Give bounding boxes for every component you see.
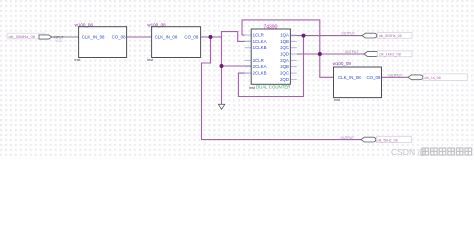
svg-text:1QB: 1QB <box>280 39 289 44</box>
svg-text:1CLKB: 1CLKB <box>253 45 267 50</box>
svg-text:2QC: 2QC <box>280 71 289 76</box>
svg-text:CO_08: CO_08 <box>112 35 126 40</box>
svg-text:inst: inst <box>75 58 82 62</box>
svg-text:w100_08: w100_08 <box>333 61 352 66</box>
svg-text:CLK_IN_08: CLK_IN_08 <box>155 35 178 40</box>
svg-text:CO_08: CO_08 <box>367 75 381 80</box>
svg-text:clk_5kHz_08: clk_5kHz_08 <box>377 138 398 142</box>
svg-text:1QC: 1QC <box>280 45 289 50</box>
svg-text:w100_08: w100_08 <box>75 22 94 27</box>
svg-text:OUTPUT: OUTPUT <box>341 31 355 35</box>
svg-text:2QD: 2QD <box>280 77 289 82</box>
svg-text:2CLKA: 2CLKA <box>253 64 267 69</box>
svg-text:2QA: 2QA <box>280 58 289 63</box>
svg-text:1QA: 1QA <box>280 33 289 38</box>
svg-text:inst: inst <box>147 58 154 62</box>
svg-text:clk_500Hz_08: clk_500Hz_08 <box>379 34 402 38</box>
svg-text:1QD: 1QD <box>280 52 289 57</box>
svg-text:CSDN @: CSDN @ <box>391 147 426 157</box>
svg-text:clk_1kHz_08: clk_1kHz_08 <box>379 52 401 56</box>
svg-text:CLK_IN_08: CLK_IN_08 <box>338 75 361 80</box>
svg-text:74390: 74390 <box>264 25 278 31</box>
svg-text:OUTPUT: OUTPUT <box>341 136 355 140</box>
svg-text:OUTPUT: OUTPUT <box>388 74 402 78</box>
svg-text:1CLR: 1CLR <box>253 33 264 38</box>
svg-text:w100_08: w100_08 <box>147 22 166 27</box>
svg-text:clk_50MHz_08: clk_50MHz_08 <box>9 34 36 39</box>
svg-text:CLK_IN_08: CLK_IN_08 <box>82 35 105 40</box>
svg-text:1CLKA: 1CLKA <box>253 39 267 44</box>
svg-text:clk_1s_08: clk_1s_08 <box>425 76 441 80</box>
svg-text:CO_08: CO_08 <box>184 35 198 40</box>
svg-text:2CLR: 2CLR <box>253 58 264 63</box>
svg-text:OUTPUT: OUTPUT <box>345 50 359 54</box>
svg-text:VCC: VCC <box>56 39 63 43</box>
svg-text:DUAL COUNTER: DUAL COUNTER <box>256 85 290 90</box>
svg-text:inst: inst <box>249 86 256 90</box>
svg-text:inst: inst <box>334 98 341 102</box>
svg-text:2QB: 2QB <box>280 64 289 69</box>
svg-text:2CLKB: 2CLKB <box>253 71 267 76</box>
